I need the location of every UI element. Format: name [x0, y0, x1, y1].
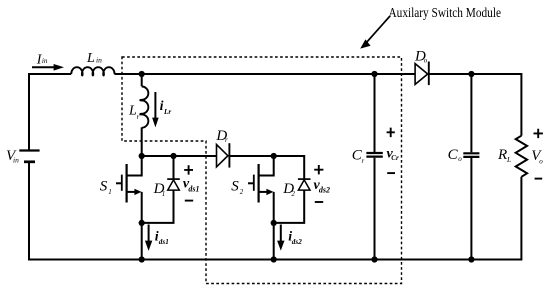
svg-text:o: o [458, 155, 462, 163]
svg-text:R: R [497, 147, 507, 163]
svg-text:2: 2 [240, 188, 244, 196]
svg-text:Lr: Lr [163, 108, 171, 116]
svg-text:S: S [100, 178, 108, 194]
svg-text:1: 1 [108, 188, 112, 196]
svg-text:C: C [448, 147, 459, 163]
svg-text:S: S [231, 178, 239, 194]
svg-text:r: r [225, 136, 228, 144]
svg-text:ds1: ds1 [188, 185, 199, 194]
svg-text:r: r [362, 157, 365, 165]
svg-text:ds2: ds2 [292, 238, 302, 246]
svg-text:Cr: Cr [391, 154, 399, 162]
svg-text:1: 1 [162, 190, 166, 198]
svg-text:L: L [86, 51, 95, 66]
svg-text:2: 2 [291, 190, 295, 198]
svg-text:L: L [506, 155, 511, 164]
svg-text:ds2: ds2 [319, 185, 330, 194]
svg-text:Auxilary Switch Module: Auxilary Switch Module [389, 5, 502, 20]
svg-text:in: in [42, 57, 48, 65]
svg-text:ds1: ds1 [159, 238, 169, 246]
svg-text:in: in [96, 56, 102, 65]
svg-text:in: in [13, 156, 19, 165]
svg-text:r: r [137, 113, 140, 121]
svg-text:i: i [160, 99, 164, 114]
svg-text:o: o [424, 57, 428, 65]
svg-text:o: o [539, 157, 543, 165]
